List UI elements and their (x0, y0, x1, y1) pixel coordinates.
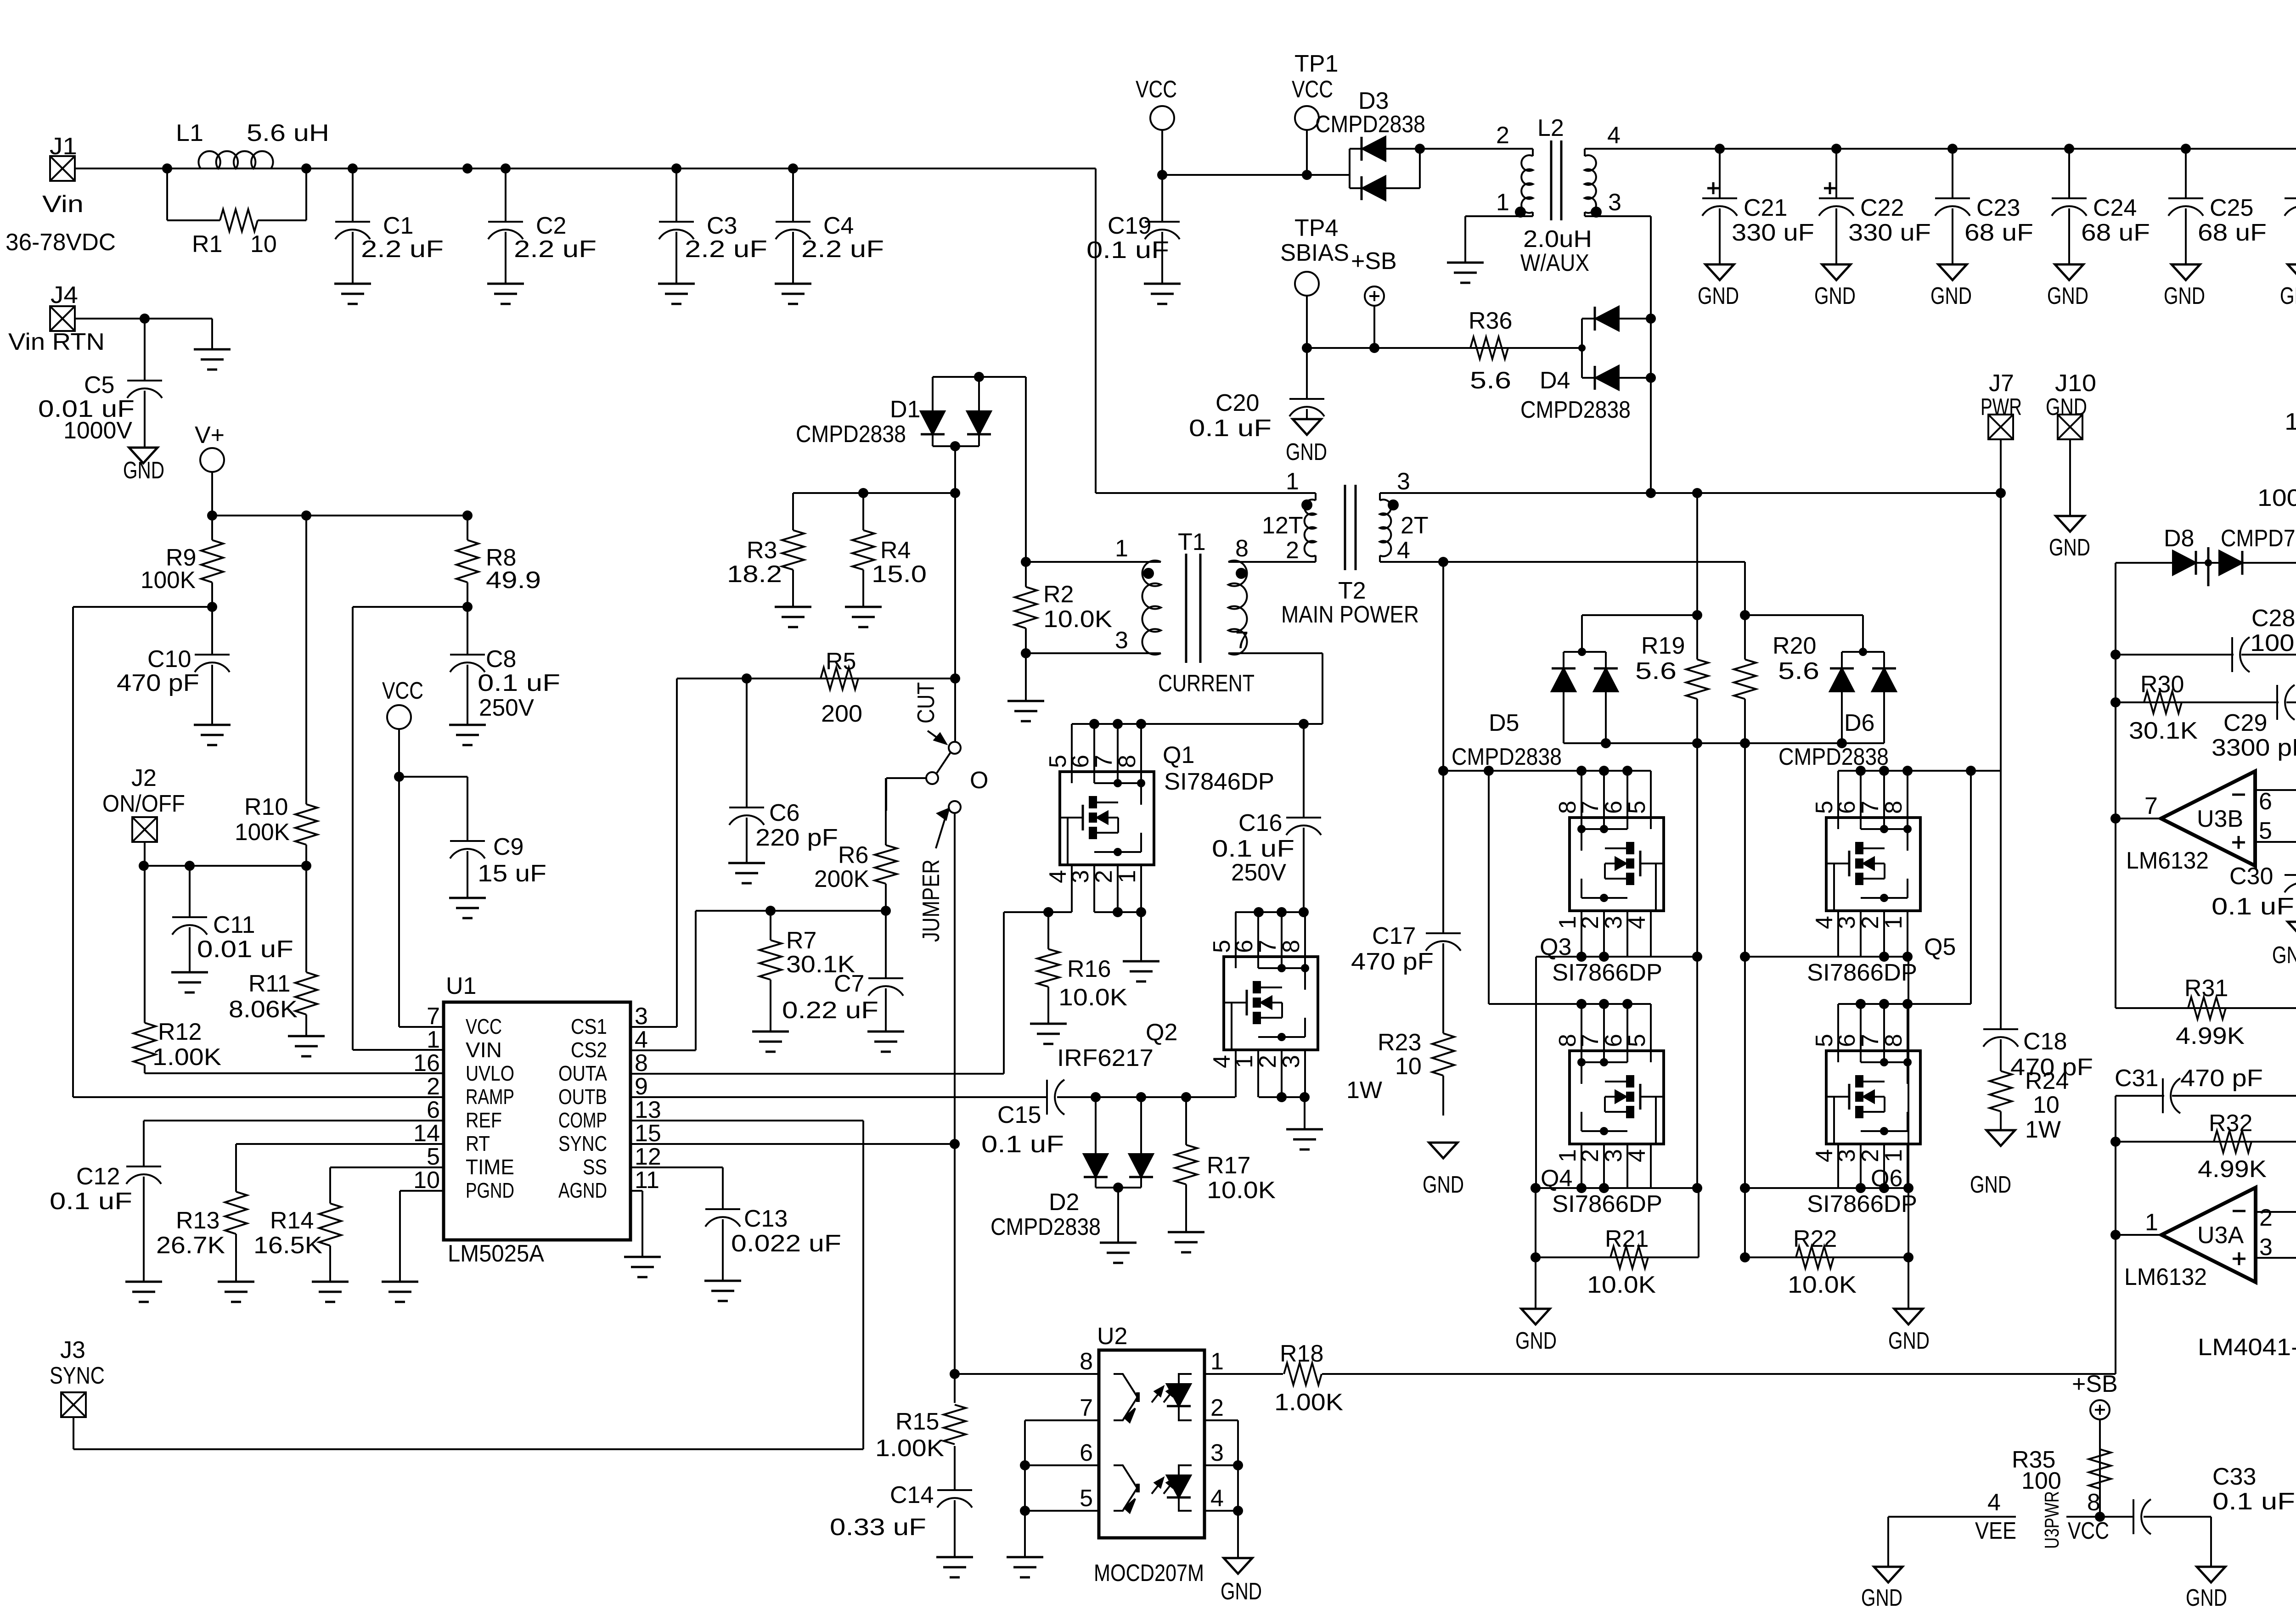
svg-text:R11: R11 (248, 970, 291, 997)
svg-text:R24: R24 (2025, 1068, 2069, 1094)
svg-text:R21: R21 (1605, 1226, 1649, 1252)
svg-text:C15: C15 (997, 1102, 1041, 1128)
svg-text:VEE: VEE (1975, 1518, 2016, 1544)
svg-text:36-78VDC: 36-78VDC (6, 229, 116, 256)
svg-text:1: 1 (1286, 468, 1299, 495)
svg-text:W/AUX: W/AUX (1520, 250, 1589, 276)
svg-text:CS1: CS1 (571, 1015, 607, 1038)
svg-text:R30: R30 (2140, 671, 2184, 698)
svg-text:15.0: 15.0 (872, 561, 927, 588)
svg-text:4: 4 (1210, 1485, 1224, 1512)
svg-text:CMPD2838: CMPD2838 (1520, 397, 1631, 423)
svg-text:C14: C14 (890, 1482, 934, 1508)
svg-text:C21: C21 (1744, 195, 1787, 221)
svg-text:LM6132: LM6132 (2126, 847, 2209, 874)
svg-text:1.00K: 1.00K (152, 1044, 221, 1071)
svg-text:R14: R14 (270, 1207, 314, 1234)
svg-text:2: 2 (1577, 916, 1604, 929)
svg-text:VCC: VCC (1136, 76, 1177, 103)
svg-text:5.6: 5.6 (1635, 658, 1677, 684)
svg-text:4: 4 (1607, 122, 1621, 149)
svg-text:D8: D8 (2164, 525, 2194, 552)
svg-text:1: 1 (1880, 1149, 1907, 1162)
svg-text:1W: 1W (1346, 1077, 1382, 1104)
svg-text:C2: C2 (536, 213, 566, 239)
svg-text:68 uF: 68 uF (1964, 219, 2033, 246)
svg-text:10: 10 (1395, 1053, 1422, 1080)
svg-text:100 pF: 100 pF (2250, 630, 2296, 656)
svg-text:1: 1 (1210, 1348, 1224, 1375)
svg-text:C30: C30 (2229, 863, 2273, 890)
svg-text:10.0K: 10.0K (1587, 1272, 1656, 1298)
svg-text:R3: R3 (747, 537, 777, 564)
svg-text:3: 3 (1115, 627, 1128, 654)
svg-text:GND: GND (1814, 283, 1856, 309)
svg-text:2: 2 (1857, 916, 1884, 929)
svg-text:C19: C19 (1108, 213, 1151, 239)
svg-text:200: 200 (821, 701, 862, 727)
svg-text:V+: V+ (195, 422, 225, 449)
svg-text:J1: J1 (50, 133, 77, 160)
svg-text:10.0K: 10.0K (1207, 1177, 1276, 1204)
svg-text:3: 3 (1210, 1440, 1224, 1466)
svg-text:8.06K: 8.06K (229, 996, 298, 1023)
svg-text:U3PWR: U3PWR (2041, 1491, 2063, 1549)
svg-text:2T: 2T (1401, 512, 1429, 539)
svg-text:D2: D2 (1049, 1189, 1079, 1216)
svg-text:Q5: Q5 (1924, 934, 1956, 960)
svg-text:1: 1 (1114, 870, 1141, 883)
svg-text:GND: GND (123, 457, 164, 484)
svg-text:LM5025A: LM5025A (448, 1240, 544, 1267)
svg-text:5.6 uH: 5.6 uH (247, 120, 329, 146)
svg-text:R1: R1 (192, 231, 222, 258)
svg-text:J7: J7 (1989, 370, 2014, 397)
svg-text:7: 7 (2144, 793, 2158, 819)
svg-text:T1: T1 (1178, 529, 1206, 555)
svg-text:7: 7 (1857, 1034, 1884, 1047)
svg-text:3300 pF: 3300 pF (2212, 734, 2296, 761)
svg-text:2: 2 (1577, 1149, 1604, 1162)
svg-text:U2: U2 (1097, 1323, 1127, 1350)
svg-text:J4: J4 (51, 282, 78, 308)
svg-text:R15: R15 (895, 1408, 939, 1435)
svg-text:C12: C12 (76, 1163, 120, 1190)
svg-text:TP4: TP4 (1294, 215, 1338, 241)
svg-text:4: 4 (635, 1026, 648, 1053)
svg-text:CMPD2838: CMPD2838 (1452, 744, 1562, 770)
svg-text:12T: 12T (1262, 512, 1303, 539)
svg-text:2: 2 (1286, 537, 1299, 564)
svg-text:1: 1 (2145, 1209, 2158, 1236)
svg-text:6: 6 (1067, 755, 1094, 768)
svg-text:0.1 uF: 0.1 uF (981, 1131, 1064, 1158)
svg-text:C4: C4 (823, 213, 854, 239)
svg-text:C7: C7 (834, 970, 864, 997)
svg-text:SI7866DP: SI7866DP (1807, 959, 1917, 986)
svg-text:1.00K: 1.00K (1274, 1389, 1343, 1416)
svg-text:6: 6 (427, 1097, 440, 1123)
svg-text:CURRENT: CURRENT (1158, 670, 1255, 697)
svg-text:VCC: VCC (1292, 76, 1333, 103)
svg-text:14: 14 (413, 1120, 440, 1147)
svg-text:C9: C9 (493, 834, 523, 860)
svg-text:2.2 uF: 2.2 uF (801, 236, 884, 263)
svg-text:3: 3 (635, 1003, 648, 1030)
svg-text:CMPD7000: CMPD7000 (2221, 525, 2296, 552)
svg-text:Vin RTN: Vin RTN (8, 329, 105, 355)
svg-text:7: 7 (1255, 940, 1281, 953)
svg-text:1000V: 1000V (63, 417, 132, 444)
svg-text:0.1 uF: 0.1 uF (1212, 835, 1294, 862)
svg-text:0.01 uF: 0.01 uF (197, 936, 293, 963)
svg-text:5: 5 (2259, 818, 2272, 844)
svg-text:2.2 uF: 2.2 uF (361, 236, 444, 263)
svg-text:D6: D6 (1844, 710, 1874, 736)
svg-text:JUMPER: JUMPER (918, 859, 945, 942)
svg-text:R6: R6 (838, 842, 868, 869)
svg-text:7: 7 (1080, 1395, 1093, 1421)
svg-text:5.6: 5.6 (1470, 367, 1511, 394)
svg-text:CMPD2838: CMPD2838 (1778, 744, 1889, 770)
svg-text:C22: C22 (1860, 195, 1904, 221)
svg-text:OUTA: OUTA (558, 1061, 607, 1085)
svg-text:8: 8 (635, 1050, 648, 1076)
svg-text:2.0uH: 2.0uH (1523, 226, 1592, 252)
svg-text:2: 2 (1857, 1149, 1884, 1162)
svg-text:2.2 uF: 2.2 uF (514, 236, 597, 263)
svg-text:VCC: VCC (466, 1015, 502, 1038)
svg-text:16.5K: 16.5K (253, 1232, 322, 1259)
svg-text:10: 10 (2033, 1092, 2060, 1118)
svg-text:2: 2 (1210, 1395, 1224, 1421)
svg-text:R20: R20 (1773, 633, 1816, 659)
svg-text:330 uF: 330 uF (1848, 219, 1931, 246)
svg-text:330 uF: 330 uF (1732, 219, 1814, 246)
svg-text:R7: R7 (786, 927, 816, 954)
svg-text:4: 4 (1987, 1489, 2001, 1516)
svg-text:L1: L1 (176, 120, 203, 146)
svg-text:7: 7 (1235, 627, 1249, 654)
svg-text:5.6: 5.6 (1778, 658, 1819, 684)
svg-text:C16: C16 (1238, 810, 1282, 836)
svg-text:3: 3 (1067, 870, 1094, 883)
svg-text:+SB: +SB (1351, 248, 1397, 275)
svg-text:10: 10 (250, 231, 277, 258)
svg-text:R2: R2 (1043, 581, 1074, 608)
svg-text:0.33 uF: 0.33 uF (830, 1514, 926, 1541)
svg-text:3: 3 (2259, 1234, 2273, 1261)
svg-text:ON/OFF: ON/OFF (102, 790, 185, 817)
svg-text:T2: T2 (1338, 577, 1366, 604)
svg-text:15 uF: 15 uF (478, 860, 546, 887)
svg-text:5: 5 (1624, 1034, 1650, 1047)
svg-text:D5: D5 (1489, 710, 1519, 736)
svg-text:4: 4 (1397, 537, 1410, 564)
svg-text:3: 3 (1600, 916, 1627, 929)
svg-text:PGND: PGND (466, 1178, 514, 1202)
svg-text:12: 12 (635, 1144, 661, 1170)
svg-text:GND: GND (2046, 394, 2087, 420)
svg-text:R4: R4 (880, 537, 911, 564)
svg-text:OUTB: OUTB (558, 1085, 607, 1109)
svg-text:68 uF: 68 uF (2198, 219, 2267, 246)
svg-text:6: 6 (1231, 940, 1258, 953)
svg-text:6: 6 (2259, 788, 2272, 815)
svg-text:C13: C13 (744, 1205, 788, 1232)
svg-text:1: 1 (427, 1026, 440, 1053)
svg-text:GND: GND (1515, 1328, 1557, 1354)
svg-text:C1: C1 (383, 213, 413, 239)
svg-text:SYNC: SYNC (558, 1132, 607, 1155)
svg-text:2: 2 (427, 1073, 440, 1100)
svg-text:R23: R23 (1378, 1029, 1421, 1056)
svg-text:0.1 uF: 0.1 uF (1189, 415, 1272, 442)
svg-text:2: 2 (2259, 1205, 2273, 1231)
svg-text:C23: C23 (1976, 195, 2020, 221)
svg-text:CS2: CS2 (571, 1038, 607, 1062)
svg-text:C5: C5 (84, 372, 114, 398)
svg-text:4: 4 (1624, 1149, 1650, 1162)
svg-text:U3B: U3B (2197, 806, 2243, 832)
svg-text:L2: L2 (1537, 115, 1564, 141)
svg-text:100: 100 (2021, 1468, 2061, 1494)
svg-text:GND: GND (2280, 283, 2296, 309)
svg-text:C11: C11 (213, 912, 255, 938)
svg-text:3: 3 (1397, 468, 1410, 495)
svg-text:D1: D1 (890, 396, 920, 423)
svg-text:13: 13 (635, 1097, 661, 1123)
svg-text:4: 4 (1624, 916, 1650, 929)
svg-text:SI7866DP: SI7866DP (1552, 959, 1662, 986)
svg-text:4.99K: 4.99K (2198, 1156, 2267, 1183)
svg-text:8: 8 (1880, 1034, 1907, 1047)
svg-text:VCC: VCC (2068, 1518, 2109, 1544)
svg-text:TP1: TP1 (1294, 50, 1338, 77)
svg-text:VCC: VCC (382, 678, 423, 704)
svg-text:26.7K: 26.7K (156, 1232, 225, 1259)
svg-text:GND: GND (2186, 1585, 2227, 1609)
svg-text:RT: RT (466, 1132, 490, 1155)
svg-text:1.00K: 1.00K (2285, 409, 2296, 435)
svg-text:6: 6 (1834, 801, 1860, 814)
svg-text:D3: D3 (1358, 88, 1389, 114)
svg-text:Q2: Q2 (1146, 1019, 1177, 1046)
svg-text:0.1 uF: 0.1 uF (2212, 1488, 2295, 1515)
svg-text:GND: GND (2164, 283, 2205, 309)
svg-text:J2: J2 (131, 765, 157, 791)
svg-text:7: 7 (1091, 755, 1117, 768)
svg-text:6: 6 (1080, 1440, 1093, 1466)
svg-text:7: 7 (427, 1003, 440, 1030)
svg-text:GND: GND (1698, 283, 1739, 309)
svg-text:Q1: Q1 (1163, 742, 1194, 768)
svg-text:10.0K: 10.0K (1788, 1272, 1857, 1298)
svg-text:3: 3 (1600, 1149, 1627, 1162)
svg-text:220 pF: 220 pF (755, 824, 838, 851)
svg-text:0.1 uF: 0.1 uF (478, 670, 560, 696)
svg-text:U3A: U3A (2197, 1222, 2244, 1249)
svg-text:8: 8 (1235, 535, 1249, 562)
svg-text:LM4041-1.2: LM4041-1.2 (2198, 1334, 2296, 1361)
svg-text:RAMP: RAMP (466, 1085, 514, 1109)
svg-text:R31: R31 (2184, 975, 2228, 1002)
svg-text:C24: C24 (2093, 195, 2137, 221)
svg-text:O: O (970, 767, 988, 794)
svg-text:U1: U1 (446, 973, 476, 999)
svg-text:R18: R18 (1280, 1340, 1323, 1367)
svg-text:C6: C6 (769, 800, 799, 826)
svg-text:R19: R19 (1641, 633, 1685, 659)
svg-text:18.2: 18.2 (727, 561, 782, 588)
svg-text:1.00K: 1.00K (875, 1435, 944, 1462)
svg-text:8: 8 (1278, 940, 1305, 953)
svg-text:7: 7 (1857, 801, 1884, 814)
svg-text:GND: GND (2272, 942, 2296, 969)
svg-text:1W: 1W (2025, 1116, 2061, 1143)
svg-text:5: 5 (427, 1144, 440, 1170)
svg-text:GND: GND (2047, 283, 2088, 309)
svg-text:C8: C8 (486, 646, 516, 673)
svg-text:16: 16 (413, 1050, 440, 1076)
svg-text:7: 7 (1577, 1034, 1604, 1047)
svg-text:SI7846DP: SI7846DP (1164, 768, 1274, 795)
svg-text:0.1 uF: 0.1 uF (2212, 893, 2294, 920)
svg-text:SI7866DP: SI7866DP (1807, 1191, 1917, 1217)
svg-text:CMPD2838: CMPD2838 (796, 421, 906, 448)
svg-text:1: 1 (1231, 1055, 1258, 1068)
svg-text:470 pF: 470 pF (1351, 948, 1434, 975)
svg-text:100K: 100K (141, 567, 196, 594)
svg-text:GND: GND (2049, 534, 2090, 561)
svg-text:C10: C10 (147, 646, 191, 673)
svg-text:470 pF: 470 pF (2180, 1065, 2263, 1092)
svg-text:R32: R32 (2209, 1110, 2252, 1137)
svg-text:MOCD207M: MOCD207M (1094, 1560, 1204, 1587)
svg-text:GND: GND (1930, 283, 1972, 309)
svg-text:2: 2 (1091, 870, 1117, 883)
svg-text:IRF6217: IRF6217 (1057, 1045, 1154, 1071)
svg-text:MAIN POWER: MAIN POWER (1281, 601, 1419, 628)
svg-text:Vin: Vin (42, 191, 84, 218)
svg-text:2: 2 (1255, 1055, 1281, 1068)
svg-text:5: 5 (1080, 1485, 1093, 1512)
svg-text:R36: R36 (1469, 308, 1512, 334)
svg-text:UVLO: UVLO (466, 1061, 514, 1085)
svg-text:SBIAS: SBIAS (1280, 240, 1349, 266)
svg-text:15: 15 (635, 1120, 661, 1147)
svg-text:GND: GND (1861, 1585, 1902, 1609)
svg-text:R10: R10 (244, 794, 288, 820)
svg-text:3: 3 (1608, 189, 1621, 216)
svg-text:SI7866DP: SI7866DP (1552, 1191, 1662, 1217)
svg-text:10: 10 (413, 1167, 440, 1194)
svg-text:200K: 200K (814, 866, 869, 892)
svg-text:1000 pF: 1000 pF (2257, 485, 2296, 511)
svg-text:CUT: CUT (913, 682, 940, 723)
svg-text:SS: SS (583, 1155, 607, 1179)
svg-text:10.0K: 10.0K (1043, 606, 1112, 633)
svg-text:250V: 250V (1231, 859, 1286, 886)
svg-text:C3: C3 (707, 213, 737, 239)
svg-text:C28: C28 (2251, 605, 2295, 632)
svg-text:30.1K: 30.1K (2129, 718, 2198, 744)
svg-text:2: 2 (1496, 122, 1509, 149)
svg-text:TIME: TIME (466, 1155, 514, 1179)
svg-text:LM6132: LM6132 (2124, 1264, 2207, 1290)
svg-text:+SB: +SB (2072, 1371, 2118, 1397)
svg-text:C25: C25 (2210, 195, 2253, 221)
svg-text:0.1 uF: 0.1 uF (1086, 237, 1169, 263)
svg-text:9: 9 (635, 1073, 648, 1100)
svg-text:COMP: COMP (558, 1108, 607, 1132)
svg-text:SYNC: SYNC (50, 1362, 105, 1389)
svg-text:8: 8 (1080, 1348, 1093, 1375)
svg-text:C17: C17 (1372, 923, 1416, 949)
svg-text:3: 3 (1278, 1055, 1305, 1068)
svg-text:68 uF: 68 uF (2081, 219, 2150, 246)
svg-text:11: 11 (635, 1167, 659, 1194)
svg-text:3: 3 (1834, 1149, 1860, 1162)
svg-text:6: 6 (1600, 1034, 1627, 1047)
svg-text:R13: R13 (176, 1207, 219, 1234)
svg-text:D4: D4 (1540, 367, 1570, 394)
svg-text:R17: R17 (1207, 1152, 1250, 1179)
svg-text:GND: GND (1970, 1172, 2011, 1198)
svg-text:CMPD2838: CMPD2838 (990, 1214, 1101, 1240)
svg-text:10.0K: 10.0K (1058, 984, 1127, 1011)
svg-text:C29: C29 (2223, 710, 2267, 736)
svg-text:0.022 uF: 0.022 uF (731, 1230, 841, 1257)
svg-text:C20: C20 (1216, 390, 1259, 416)
svg-text:6: 6 (1834, 1034, 1860, 1047)
svg-text:R22: R22 (1793, 1226, 1837, 1252)
svg-text:8: 8 (1880, 801, 1907, 814)
svg-text:GND: GND (1221, 1578, 1262, 1605)
svg-text:0.1 uF: 0.1 uF (50, 1188, 132, 1215)
svg-text:R5: R5 (826, 648, 856, 675)
svg-text:R12: R12 (158, 1019, 202, 1045)
svg-text:6: 6 (1600, 801, 1627, 814)
svg-text:R16: R16 (1067, 956, 1111, 982)
svg-text:470 pF: 470 pF (117, 670, 199, 696)
svg-text:4.99K: 4.99K (2176, 1023, 2245, 1049)
svg-text:3: 3 (1834, 916, 1860, 929)
svg-text:1: 1 (1496, 189, 1509, 216)
svg-text:49.9: 49.9 (486, 567, 541, 594)
svg-text:8: 8 (1114, 755, 1141, 768)
svg-text:CMPD2838: CMPD2838 (1315, 111, 1425, 138)
svg-text:GND: GND (1888, 1328, 1930, 1354)
svg-text:GND: GND (1286, 439, 1327, 465)
svg-text:8: 8 (2087, 1489, 2100, 1516)
svg-text:100K: 100K (235, 819, 290, 846)
svg-text:2.2 uF: 2.2 uF (685, 236, 767, 263)
svg-text:J3: J3 (60, 1337, 85, 1363)
svg-text:VIN: VIN (466, 1038, 502, 1062)
svg-text:C31: C31 (2115, 1065, 2158, 1092)
svg-text:PWR: PWR (1981, 394, 2022, 420)
svg-text:J10: J10 (2055, 370, 2096, 397)
svg-text:0.22 uF: 0.22 uF (782, 997, 878, 1024)
svg-text:GND: GND (1423, 1172, 1464, 1198)
svg-text:AGND: AGND (558, 1178, 607, 1202)
svg-text:250V: 250V (479, 695, 534, 721)
svg-text:C18: C18 (2023, 1028, 2067, 1055)
svg-text:1: 1 (1880, 916, 1907, 929)
svg-text:C33: C33 (2212, 1463, 2256, 1490)
svg-text:REF: REF (466, 1108, 502, 1132)
